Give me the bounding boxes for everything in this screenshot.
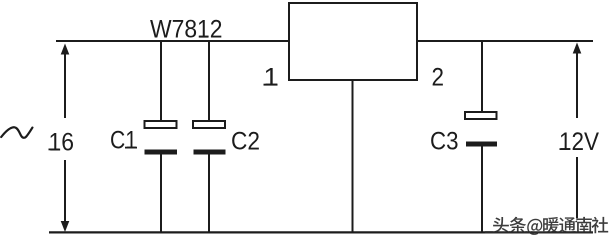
svg-text:C1: C1 — [110, 127, 137, 155]
watermark char at (@) — [527, 219, 544, 237]
wire: regulator ground pin lead — [352, 80, 354, 232]
wire: C1 bottom lead — [160, 154, 162, 232]
wire: C3 bottom lead — [481, 146, 483, 232]
capacitor C3 bottom plate (polarized bar) — [466, 142, 497, 147]
svg-text:12V: 12V — [559, 128, 599, 156]
capacitor C1 bottom plate (polarized bar) — [145, 150, 178, 155]
wire: top input rail (AC source to regulator pin 1) — [56, 40, 289, 42]
capacitor C2 top plate — [193, 121, 225, 128]
output voltage arrow line (12V), bottom segment with down arrowhead — [573, 157, 582, 231]
capacitor C3 top plate — [465, 112, 497, 119]
watermark char she (社) — [592, 217, 610, 235]
wire: C3 top lead — [481, 41, 483, 112]
watermark char tiao (条) — [510, 217, 528, 235]
pin 1 digit foot serif — [264, 84, 278, 86]
C1 digit-1 foot serif — [125, 147, 137, 149]
capacitor C2 bottom plate (polarized bar) — [194, 150, 226, 155]
wire: C2 bottom lead — [208, 154, 210, 232]
svg-text:C3: C3 — [430, 128, 459, 156]
svg-text:C2: C2 — [231, 128, 260, 156]
svg-text:2: 2 — [432, 64, 445, 92]
wire: C2 top lead — [208, 41, 210, 121]
watermark char tong (通) — [559, 217, 577, 234]
svg-text:1: 1 — [264, 64, 279, 92]
watermark char tou (头) — [493, 217, 511, 235]
wire: top output rail (regulator pin 2 to load) — [417, 40, 593, 42]
W7812 digit-1 foot serif — [199, 36, 208, 38]
watermark char nan (南) — [576, 217, 593, 235]
output voltage arrow line (12V), top segment with up arrowhead — [573, 43, 582, 119]
watermark: 头条 @暖通南社 (Toutiao @NuanTongNanShe) — [493, 217, 610, 237]
op-amp U1 regulator box W7812 — [289, 3, 417, 80]
AC source symbol (sine tilde) — [1, 127, 32, 138]
wire: C1 top lead — [160, 41, 162, 121]
svg-text:W7812: W7812 — [150, 16, 223, 44]
16 digit-1 foot serif — [49, 149, 60, 151]
input voltage arrow line (16V), bottom segment with down arrowhead — [61, 160, 70, 232]
wire: bottom rail overlapping watermark — [485, 231, 593, 233]
wire: bottom common rail — [49, 231, 593, 233]
input voltage arrow line (16V), top segment with up arrowhead — [61, 44, 70, 119]
12V digit-1 foot serif — [560, 148, 571, 150]
capacitor C1 top plate — [145, 121, 177, 128]
svg-text:16: 16 — [49, 128, 75, 156]
watermark char nuan (暖) — [543, 217, 561, 235]
